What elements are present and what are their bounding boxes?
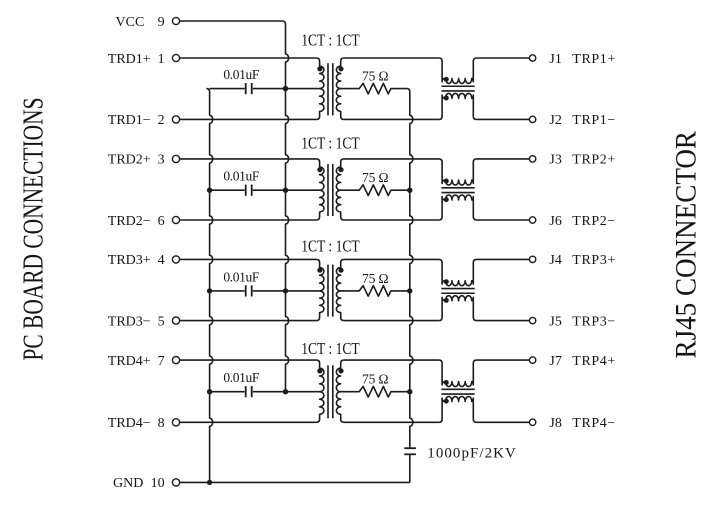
junction rail at R4 output	[407, 389, 412, 394]
svg-text:1CT : 1CT: 1CT : 1CT	[301, 339, 360, 358]
wire C4 to T4 primary center tap	[286, 391, 320, 393]
svg-text:TRP2+: TRP2+	[572, 153, 615, 168]
svg-text:6: 6	[158, 214, 165, 229]
wire GND pin10 to 1000pF capacitor	[180, 481, 410, 483]
svg-text:TRP3+: TRP3+	[572, 253, 615, 268]
svg-text:J8: J8	[549, 416, 561, 431]
svg-text:3: 3	[158, 153, 165, 168]
wire choke L2 to J6	[477, 219, 530, 221]
transformer T2 1CT:1CT	[316, 159, 344, 220]
wire T4 secondary top to choke L4	[344, 359, 439, 361]
junction rail at R2 output	[407, 188, 412, 193]
junction bus-A at C4	[207, 389, 212, 394]
wire T2 secondary bottom to choke L2	[344, 219, 439, 221]
capacitor C5 1000pF/2KV	[404, 448, 416, 482]
terminal TRD4+ pin 7	[108, 354, 180, 369]
wire choke L4 to J7	[477, 359, 530, 361]
svg-text:TRP4−: TRP4−	[572, 416, 615, 431]
resistor R2 75 ohm	[341, 185, 410, 196]
junction bus-A at C2	[207, 188, 212, 193]
svg-text:1CT : 1CT: 1CT : 1CT	[301, 237, 360, 256]
wire TRD4- to transformer T4 primary bottom	[180, 421, 317, 423]
wire TRD1+ to transformer T1 primary top	[180, 57, 317, 59]
wire bus: VCC to primary center taps	[282, 21, 288, 392]
terminal TRD2+ pin 3	[108, 153, 180, 168]
svg-text:0.01uF: 0.01uF	[223, 169, 259, 184]
wire TRD2+ to transformer T2 primary top	[180, 158, 317, 160]
svg-text:GND: GND	[113, 476, 143, 491]
svg-text:TRD1+: TRD1+	[108, 52, 151, 67]
junction bus-B at C1 (VCC to center tap)	[283, 86, 288, 91]
svg-text:VCC: VCC	[116, 15, 145, 30]
wire T3 secondary bottom to choke L3	[344, 320, 439, 322]
svg-text:75 Ω: 75 Ω	[362, 69, 389, 84]
transformer T4 1CT:1CT	[316, 360, 344, 422]
common-mode choke L2	[439, 159, 477, 220]
svg-text:4: 4	[158, 253, 165, 268]
svg-text:0.01uF: 0.01uF	[223, 67, 259, 82]
wire TRD3- to transformer T3 primary bottom	[180, 320, 317, 322]
terminal TRD3+ pin 4	[108, 253, 180, 268]
svg-text:TRP1−: TRP1−	[572, 113, 615, 128]
terminal GND pin 10	[113, 476, 180, 491]
junction rail at R3 output	[407, 288, 412, 293]
svg-text:RJ45 CONNECTOR: RJ45 CONNECTOR	[670, 131, 703, 359]
svg-text:J1: J1	[549, 52, 561, 67]
svg-text:1CT : 1CT: 1CT : 1CT	[301, 31, 360, 50]
junction bus-B at C3	[283, 288, 288, 293]
svg-text:PC BOARD CONNECTIONS: PC BOARD CONNECTIONS	[18, 98, 49, 361]
svg-text:TRD2+: TRD2+	[108, 153, 151, 168]
terminal TRD1- pin 2	[108, 113, 180, 128]
wire choke L1 to J2	[477, 118, 530, 120]
common-mode choke L1	[439, 58, 477, 119]
wire choke L3 to J4	[477, 258, 530, 260]
junction bus-B at C1	[283, 86, 288, 91]
svg-text:J4: J4	[549, 253, 561, 268]
resistor R3 75 ohm	[341, 286, 410, 297]
svg-text:TRP4+: TRP4+	[572, 354, 615, 369]
wire C1 to T1 primary center tap	[286, 88, 320, 90]
wire C2 to T2 primary center tap	[286, 189, 320, 191]
terminal VCC pin 9	[116, 15, 180, 30]
svg-text:75 Ω: 75 Ω	[362, 170, 389, 185]
svg-text:TRP3−: TRP3−	[572, 314, 615, 329]
common-mode choke L4	[439, 360, 477, 422]
capacitor C4 0.01uF	[210, 386, 286, 397]
wire choke L2 to J3	[477, 158, 530, 160]
svg-text:TRP1+: TRP1+	[572, 52, 615, 67]
svg-text:8: 8	[158, 416, 165, 431]
resistor R1 75 ohm	[341, 83, 407, 94]
svg-text:TRD3+: TRD3+	[108, 253, 151, 268]
svg-text:7: 7	[158, 354, 165, 369]
svg-text:J2: J2	[549, 113, 561, 128]
junction bus-A at GND	[207, 480, 212, 485]
wire TRD4+ to transformer T4 primary top	[180, 359, 317, 361]
svg-text:J6: J6	[549, 214, 561, 229]
svg-text:0.01uF: 0.01uF	[223, 269, 259, 284]
junction bus-B at C4	[283, 389, 288, 394]
capacitor C2 0.01uF	[210, 185, 286, 196]
svg-text:J3: J3	[549, 153, 561, 168]
wire bus: 75-ohm common rail to 1000pF capacitor	[407, 89, 413, 449]
resistor R4 75 ohm	[341, 386, 410, 397]
transformer T3 1CT:1CT	[316, 259, 344, 320]
svg-text:5: 5	[158, 314, 165, 329]
terminal TRD3- pin 5	[108, 314, 180, 329]
wire TRD3+ to transformer T3 primary top	[180, 258, 317, 260]
svg-text:TRD1−: TRD1−	[108, 113, 151, 128]
wire choke L3 to J5	[477, 320, 530, 322]
svg-text:TRD4−: TRD4−	[108, 416, 151, 431]
wire TRD2- to transformer T2 primary bottom	[180, 219, 317, 221]
svg-text:TRD4+: TRD4+	[108, 354, 151, 369]
svg-text:9: 9	[158, 15, 165, 30]
terminal TRD4- pin 8	[108, 416, 180, 431]
wire T1 secondary bottom to choke L1	[344, 118, 439, 120]
terminal TRD2- pin 6	[108, 214, 180, 229]
svg-text:J5: J5	[549, 314, 561, 329]
transformer T1 1CT:1CT	[316, 58, 344, 119]
wire bus: capacitor common rail (left, to GND)	[206, 89, 212, 483]
junction bus-B at C2	[283, 188, 288, 193]
svg-text:10: 10	[151, 476, 165, 491]
wire T3 secondary top to choke L3	[344, 258, 439, 260]
svg-text:2: 2	[158, 113, 165, 128]
wire C3 to T3 primary center tap	[286, 290, 320, 292]
svg-text:J7: J7	[549, 354, 561, 369]
wire T1 secondary top to choke L1	[344, 57, 439, 59]
capacitor C3 0.01uF	[210, 285, 286, 296]
wire choke L4 to J8	[477, 421, 530, 423]
svg-text:TRP2−: TRP2−	[572, 214, 615, 229]
common-mode choke L3	[439, 259, 477, 320]
wire T4 secondary bottom to choke L4	[344, 421, 439, 423]
svg-text:1CT : 1CT: 1CT : 1CT	[301, 134, 360, 153]
capacitor C1 0.01uF	[210, 83, 286, 94]
wire T2 secondary top to choke L2	[344, 158, 439, 160]
svg-text:0.01uF: 0.01uF	[223, 370, 259, 385]
svg-text:75 Ω: 75 Ω	[362, 372, 389, 387]
svg-text:TRD2−: TRD2−	[108, 214, 151, 229]
wire choke L1 to J1	[477, 57, 530, 59]
junction bus-A at C3	[207, 288, 212, 293]
svg-text:1000pF/2KV: 1000pF/2KV	[427, 446, 516, 462]
terminal TRD1+ pin 1	[108, 52, 180, 67]
wire TRD1- to transformer T1 primary bottom	[180, 118, 317, 120]
svg-text:75 Ω: 75 Ω	[362, 271, 389, 286]
wire VCC pin9 to bus	[180, 20, 283, 22]
svg-text:1: 1	[158, 52, 165, 67]
svg-text:TRD3−: TRD3−	[108, 314, 151, 329]
